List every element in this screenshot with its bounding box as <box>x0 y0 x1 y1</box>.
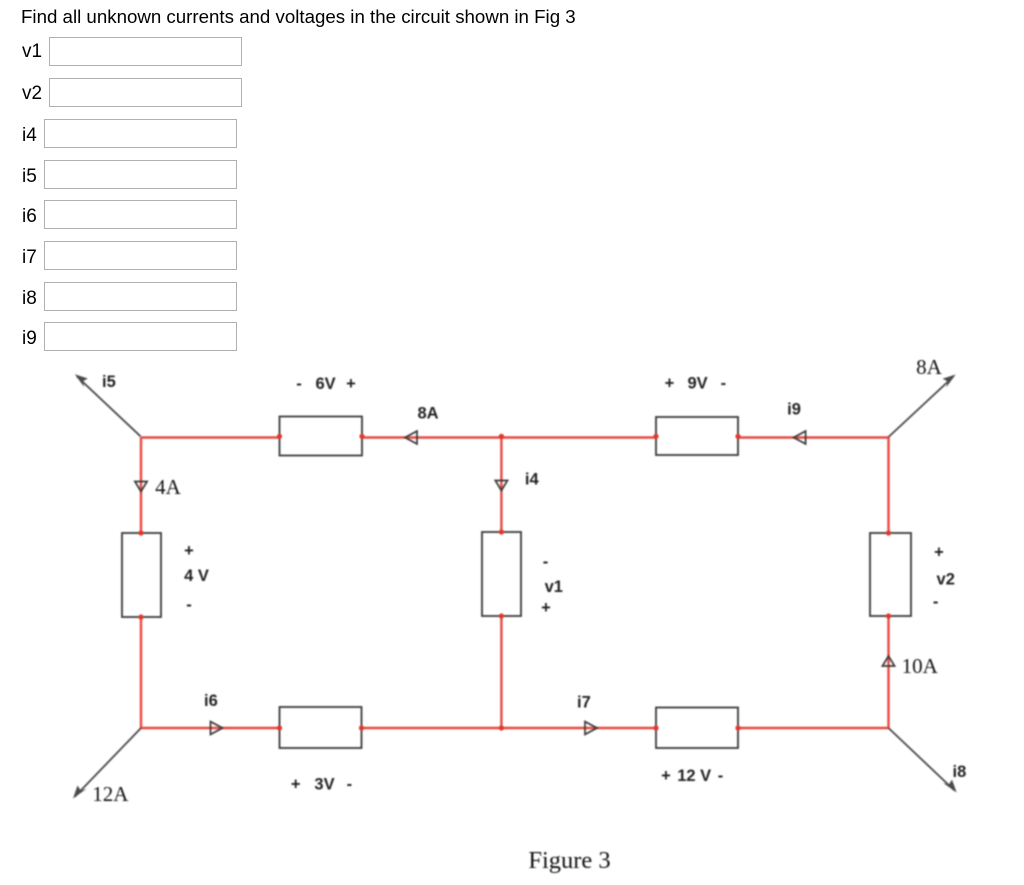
svg-text:8A: 8A <box>417 405 438 423</box>
svg-text:-: - <box>347 776 353 794</box>
svg-text:+: + <box>184 542 194 560</box>
svg-text:+: + <box>541 599 551 617</box>
svg-text:+: + <box>346 375 356 393</box>
svg-text:6V: 6V <box>316 375 336 393</box>
svg-text:-: - <box>543 553 549 571</box>
svg-text:i7: i7 <box>577 694 591 712</box>
svg-text:4A: 4A <box>155 475 182 499</box>
svg-text:v2: v2 <box>937 571 955 589</box>
svg-text:-: - <box>718 767 724 785</box>
svg-text:Figure 3: Figure 3 <box>528 847 610 874</box>
svg-text:4 V: 4 V <box>184 567 209 585</box>
svg-text:+: + <box>291 776 301 794</box>
svg-text:i6: i6 <box>204 692 218 710</box>
svg-text:i4: i4 <box>525 471 540 489</box>
svg-text:8A: 8A <box>916 355 943 379</box>
svg-text:-: - <box>186 596 192 614</box>
svg-text:i5: i5 <box>102 373 116 391</box>
svg-text:3V: 3V <box>314 776 334 794</box>
svg-text:10A: 10A <box>902 654 939 678</box>
svg-text:i8: i8 <box>953 763 967 781</box>
svg-text:v1: v1 <box>545 578 563 596</box>
svg-text:+: + <box>934 544 944 562</box>
svg-text:-: - <box>933 593 939 611</box>
svg-text:-: - <box>721 375 727 393</box>
svg-text:-: - <box>296 375 302 393</box>
svg-text:9V: 9V <box>688 375 708 393</box>
svg-text:i9: i9 <box>787 401 801 419</box>
svg-text:+: + <box>665 375 675 393</box>
svg-text:12 V: 12 V <box>677 767 711 785</box>
svg-text:12A: 12A <box>92 782 129 806</box>
svg-text:+: + <box>661 767 671 785</box>
